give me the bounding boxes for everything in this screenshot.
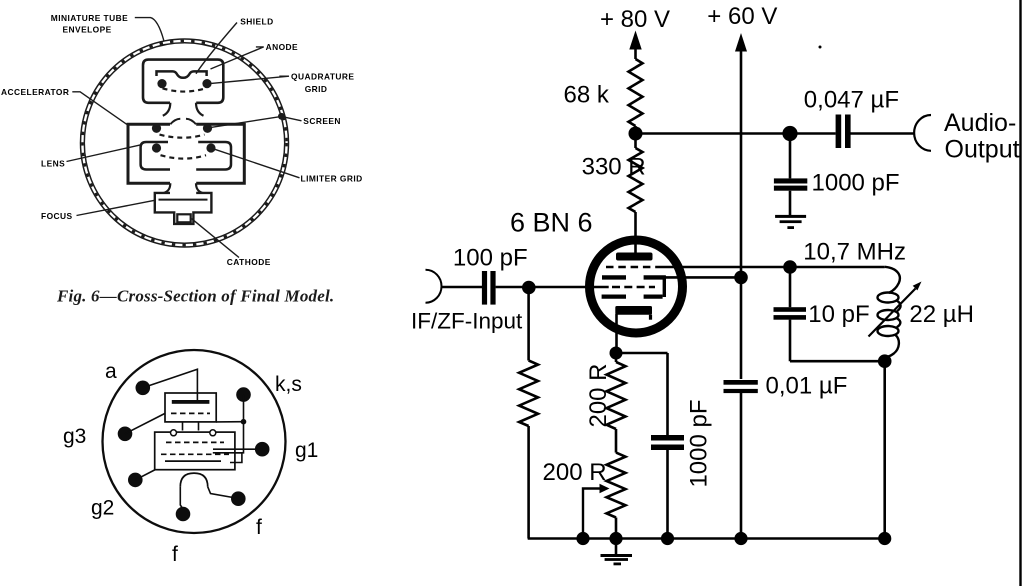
svg-text:Audio-: Audio- xyxy=(944,109,1016,137)
svg-text:IF/ZF-Input: IF/ZF-Input xyxy=(411,309,523,334)
svg-text:g1: g1 xyxy=(295,439,318,462)
svg-text:MINIATURE TUBE: MINIATURE TUBE xyxy=(51,13,128,23)
svg-text:f: f xyxy=(172,543,178,566)
svg-text:SHIELD: SHIELD xyxy=(240,17,273,27)
svg-text:Output: Output xyxy=(945,135,1020,163)
svg-text:SCREEN: SCREEN xyxy=(303,116,341,126)
svg-text:22 µH: 22 µH xyxy=(909,301,974,328)
svg-text:200 R: 200 R xyxy=(585,363,612,427)
svg-text:0,01 µF: 0,01 µF xyxy=(766,373,848,400)
svg-text:6 BN 6: 6 BN 6 xyxy=(510,208,593,238)
svg-text:a: a xyxy=(105,360,117,383)
svg-text:ACCELERATOR: ACCELERATOR xyxy=(1,87,69,97)
svg-text:g3: g3 xyxy=(63,425,86,448)
svg-text:1000 pF: 1000 pF xyxy=(812,170,900,197)
svg-text:0,047 µF: 0,047 µF xyxy=(804,87,899,114)
svg-text:ENVELOPE: ENVELOPE xyxy=(63,25,112,35)
svg-text:FOCUS: FOCUS xyxy=(41,211,73,221)
svg-text:+ 80 V: + 80 V xyxy=(600,6,670,33)
svg-text:68 k: 68 k xyxy=(564,81,610,108)
svg-text:ANODE: ANODE xyxy=(266,42,299,52)
svg-text:100 pF: 100 pF xyxy=(453,245,528,272)
svg-text:g2: g2 xyxy=(91,497,114,520)
svg-text:LENS: LENS xyxy=(41,159,65,169)
svg-text:10,7 MHz: 10,7 MHz xyxy=(803,239,906,266)
svg-text:QUADRATURE: QUADRATURE xyxy=(291,71,354,81)
svg-text:CATHODE: CATHODE xyxy=(227,257,271,267)
svg-text:k,s: k,s xyxy=(275,373,302,396)
svg-text:330 R: 330 R xyxy=(582,154,646,181)
svg-text:f: f xyxy=(256,516,262,539)
svg-text:Fig. 6—Cross-Section of Final: Fig. 6—Cross-Section of Final Model. xyxy=(56,287,334,306)
svg-text:GRID: GRID xyxy=(305,84,328,94)
svg-text:+ 60 V: + 60 V xyxy=(707,3,777,30)
svg-text:1000 pF: 1000 pF xyxy=(686,399,713,487)
svg-text:LIMITER GRID: LIMITER GRID xyxy=(301,173,363,183)
svg-text:10 pF: 10 pF xyxy=(808,301,869,328)
svg-text:200 R: 200 R xyxy=(543,459,607,486)
